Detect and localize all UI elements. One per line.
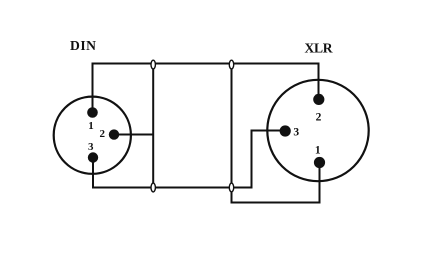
svg-text:XLR: XLR bbox=[305, 40, 333, 55]
svg-text:DIN: DIN bbox=[70, 38, 96, 53]
svg-text:3: 3 bbox=[293, 127, 299, 139]
svg-text:1: 1 bbox=[88, 120, 94, 132]
svg-text:1: 1 bbox=[315, 145, 321, 157]
svg-text:2: 2 bbox=[316, 111, 322, 123]
svg-text:2: 2 bbox=[100, 128, 106, 140]
svg-text:3: 3 bbox=[88, 141, 94, 153]
